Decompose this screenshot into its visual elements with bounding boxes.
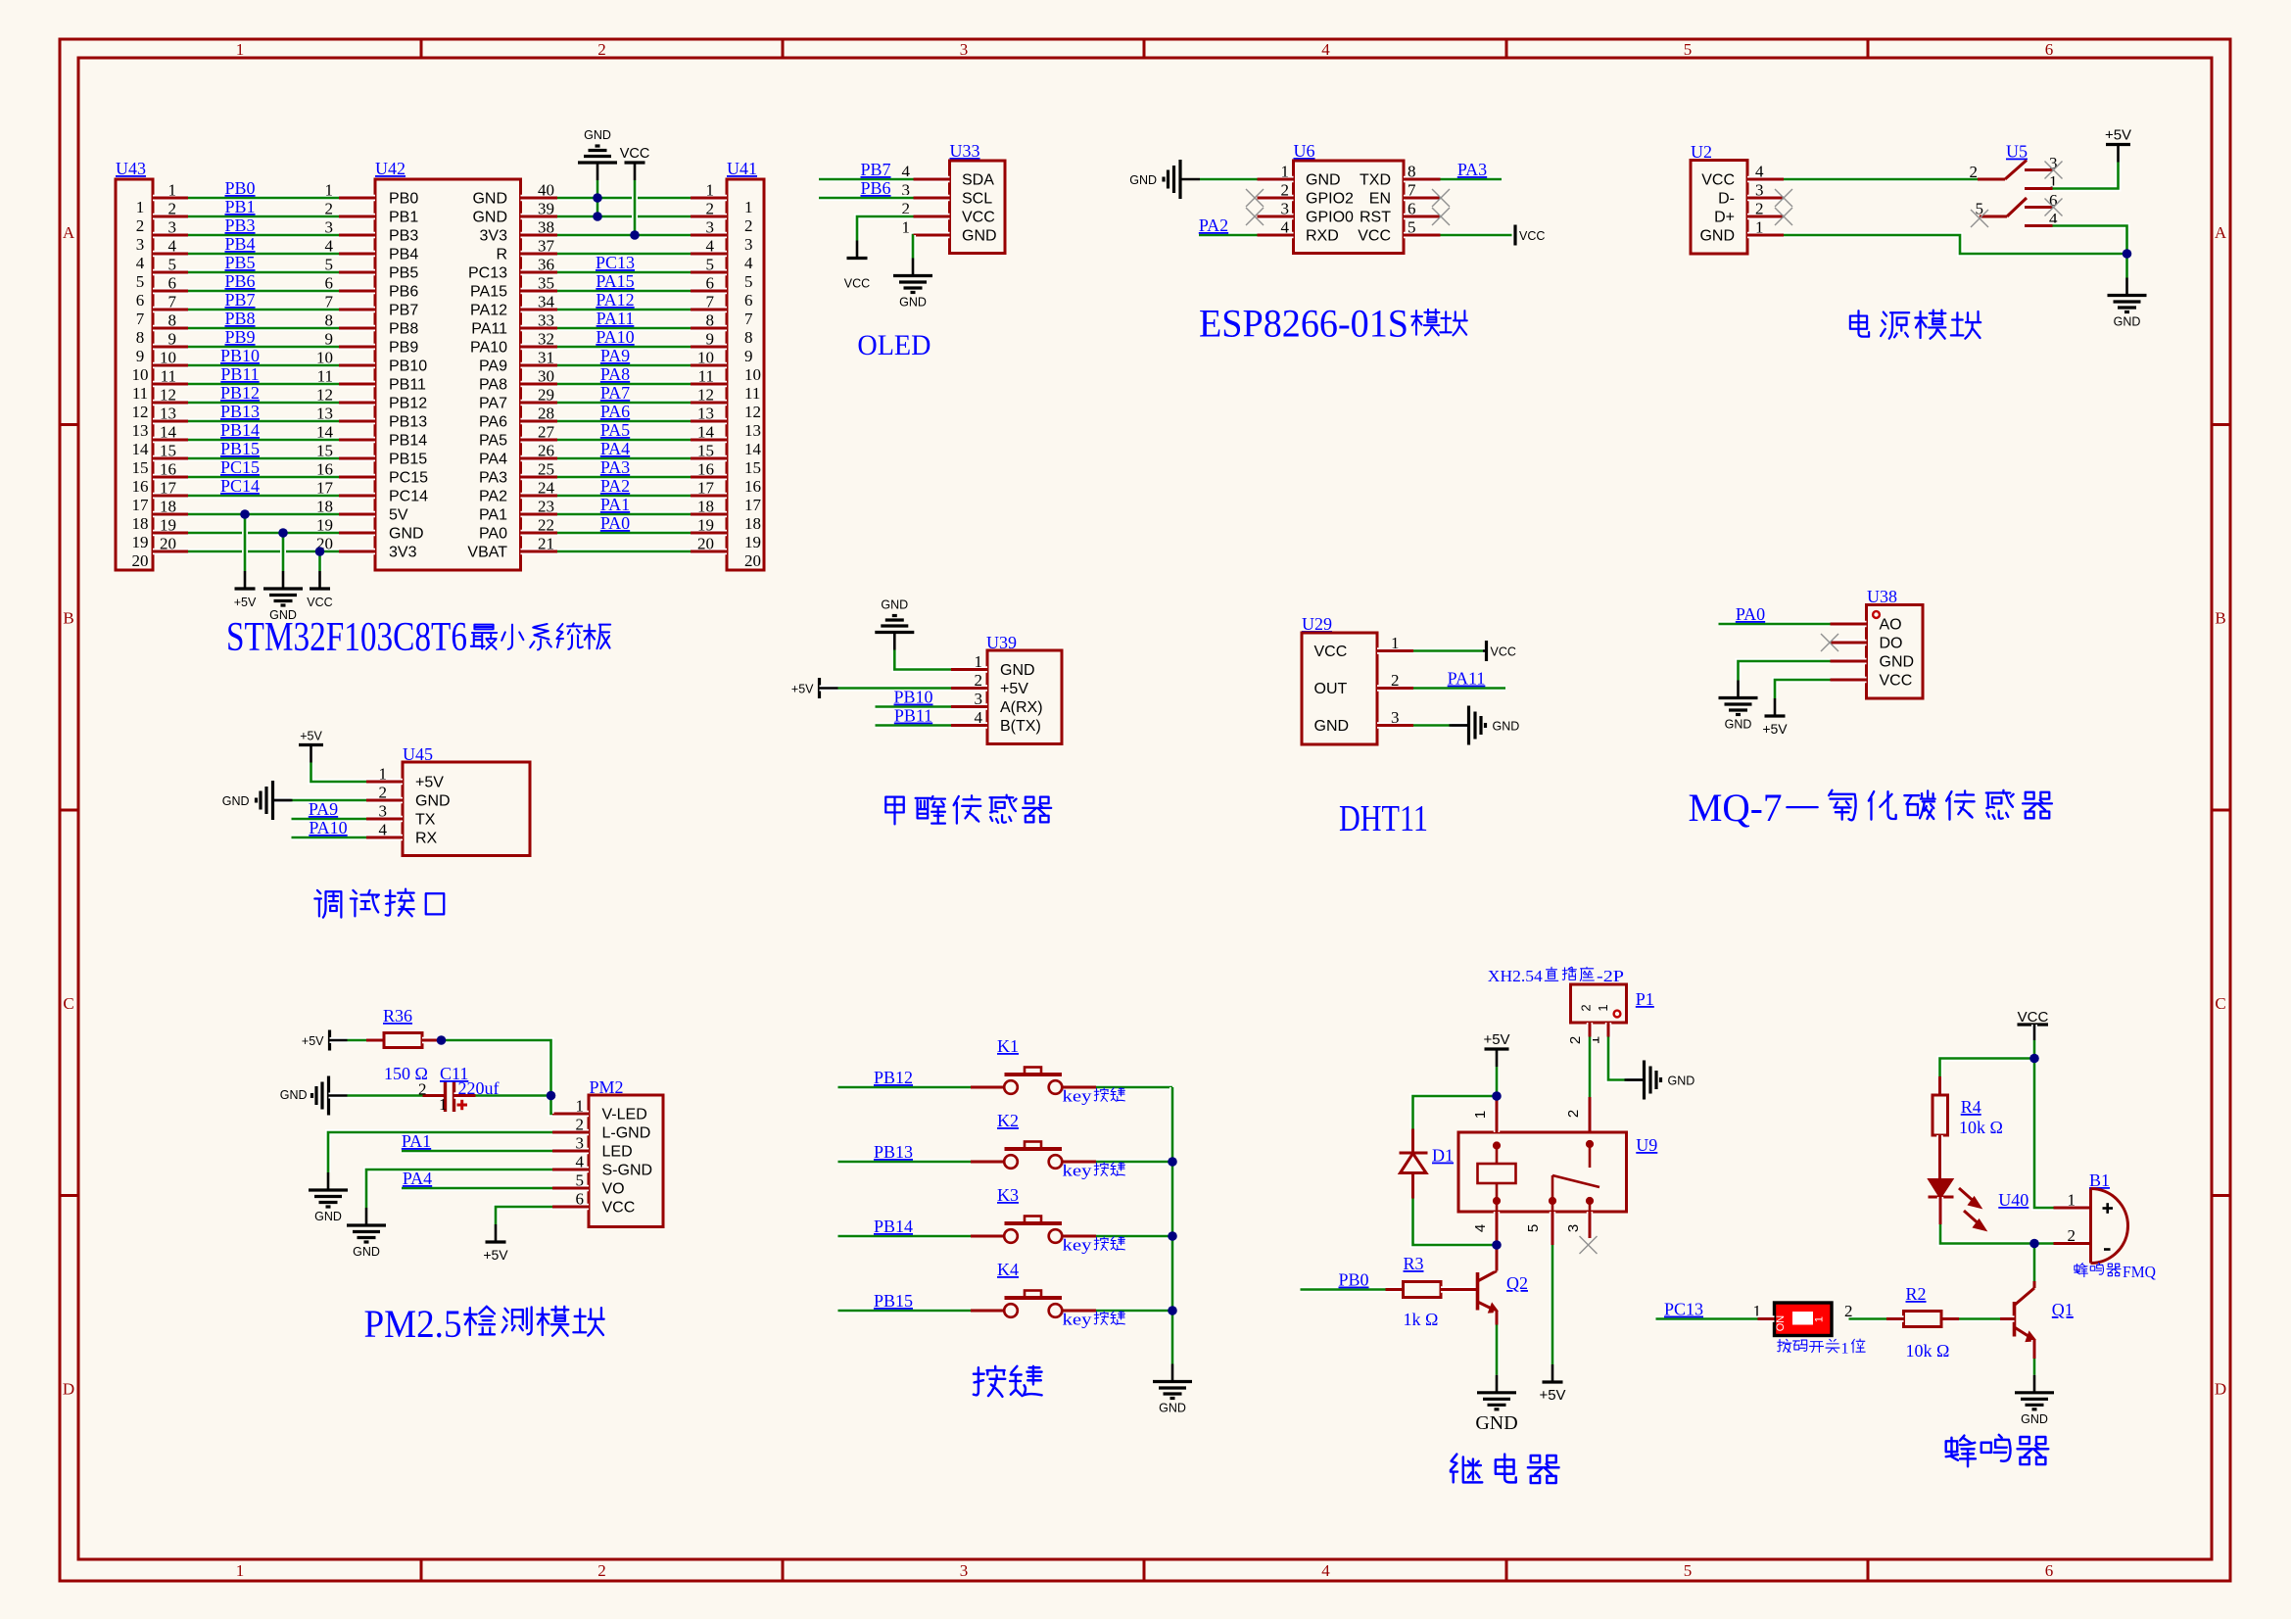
relay U9 body bbox=[1458, 1132, 1627, 1212]
U42 right pin 24 stub bbox=[521, 493, 558, 499]
svg-text:R36: R36 bbox=[383, 1006, 412, 1026]
no-connect X U6 pin3 bbox=[1246, 208, 1264, 225]
B1 label cjk feng-ming-qi bbox=[2075, 1263, 2121, 1276]
svg-text:PA4: PA4 bbox=[479, 452, 507, 468]
wire PM2 VCC bbox=[496, 1207, 552, 1224]
svg-text:U43: U43 bbox=[116, 159, 146, 178]
wire U2 VCC to switch U5 bbox=[1784, 176, 1978, 182]
svg-text:VCC: VCC bbox=[962, 210, 995, 226]
svg-text:6: 6 bbox=[136, 291, 145, 310]
wire U42-30 to U41-11 bbox=[557, 381, 691, 387]
wire U43-11 to U42-11 bbox=[188, 381, 339, 387]
svg-text:3: 3 bbox=[1755, 181, 1764, 200]
wire PB7 to U33 SDA bbox=[819, 176, 914, 182]
svg-text:2: 2 bbox=[1755, 200, 1764, 218]
svg-text:PC13: PC13 bbox=[596, 253, 635, 272]
wire U39 +5V bbox=[838, 686, 952, 692]
svg-text:+5V: +5V bbox=[234, 596, 257, 609]
svg-text:14: 14 bbox=[744, 440, 762, 458]
svg-text:RX: RX bbox=[415, 831, 438, 847]
connector U41 body bbox=[727, 179, 764, 570]
svg-text:5: 5 bbox=[744, 272, 753, 291]
wire node to B1 pin1 bbox=[2034, 1059, 2054, 1209]
svg-text:1: 1 bbox=[706, 181, 715, 200]
ground symbol above U39 bbox=[875, 616, 914, 650]
svg-text:4: 4 bbox=[136, 254, 145, 272]
wire PA10 to U45 RX bbox=[292, 835, 367, 840]
U42 right pin 35 stub bbox=[521, 288, 558, 294]
svg-text:D: D bbox=[63, 1380, 74, 1399]
svg-text:PB11: PB11 bbox=[220, 364, 259, 384]
U41 pin 8 stub bbox=[691, 325, 727, 331]
U41 pin 18 stub bbox=[691, 511, 727, 517]
C11 left lead bbox=[423, 1092, 445, 1098]
ground symbol left of U6 bbox=[1164, 160, 1200, 199]
svg-text:2: 2 bbox=[1970, 163, 1979, 181]
U39 pin 3 stub bbox=[951, 703, 987, 709]
svg-text:7: 7 bbox=[744, 310, 753, 328]
svg-text:PB7: PB7 bbox=[389, 303, 418, 319]
svg-text:3: 3 bbox=[168, 218, 177, 237]
svg-text:11: 11 bbox=[161, 367, 176, 386]
svg-text:GPIO0: GPIO0 bbox=[1306, 210, 1354, 226]
U42 left pin 20 stub bbox=[339, 549, 375, 554]
U41 pin 10 stub bbox=[691, 362, 727, 368]
wire U42-37 to U41-4 bbox=[557, 251, 691, 257]
svg-text:1: 1 bbox=[1472, 1111, 1489, 1119]
transistor Q2 bbox=[1478, 1271, 1498, 1313]
title cjk tiao-shi-jie-kou bbox=[314, 889, 444, 918]
svg-text:4: 4 bbox=[744, 254, 753, 272]
U42 right pin 40 stub bbox=[521, 195, 558, 201]
svg-text:2: 2 bbox=[1579, 1004, 1594, 1011]
svg-text:8: 8 bbox=[744, 328, 753, 347]
U33 pin 4 stub bbox=[914, 176, 950, 182]
svg-text:6: 6 bbox=[168, 274, 177, 293]
svg-text:1: 1 bbox=[236, 1561, 245, 1580]
no-connect X U5 pin5 bbox=[1971, 210, 1988, 227]
svg-text:ESP8266-01S: ESP8266-01S bbox=[1199, 302, 1408, 346]
wire PB14 to K3 bbox=[838, 1233, 972, 1239]
svg-text:GND: GND bbox=[1475, 1412, 1517, 1434]
svg-text:3: 3 bbox=[706, 218, 715, 237]
power symbol GND above U42 bbox=[578, 146, 617, 180]
wire U42-40 to U41-1 bbox=[557, 195, 691, 201]
svg-text:PA8: PA8 bbox=[479, 377, 507, 394]
wire node2 to B1 pin2 bbox=[2034, 1241, 2054, 1247]
U2 pin 2 stub bbox=[1747, 214, 1784, 219]
wire PB15 to K4 bbox=[838, 1308, 972, 1314]
svg-text:VCC: VCC bbox=[1519, 229, 1545, 243]
wire GND tap bottom bbox=[280, 533, 286, 571]
svg-text:SDA: SDA bbox=[962, 172, 994, 189]
U42 left pin 7 stub bbox=[339, 307, 375, 312]
svg-text:STM32F103C8T6: STM32F103C8T6 bbox=[226, 615, 467, 660]
U45 pin 4 stub bbox=[366, 835, 403, 840]
svg-text:PB3: PB3 bbox=[389, 228, 418, 245]
svg-text:2: 2 bbox=[597, 1561, 606, 1580]
U42 right pin 38 stub bbox=[521, 232, 558, 238]
svg-text:PB9: PB9 bbox=[389, 340, 418, 357]
U42 left pin 18 stub bbox=[339, 511, 375, 517]
svg-text:GND: GND bbox=[881, 598, 908, 612]
svg-text:PB15: PB15 bbox=[389, 452, 427, 468]
svg-text:VCC: VCC bbox=[1880, 673, 1913, 690]
svg-text:L-GND: L-GND bbox=[602, 1125, 651, 1142]
junction C11 node bbox=[547, 1091, 556, 1101]
U42 left pin 10 stub bbox=[339, 362, 375, 368]
svg-text:GND: GND bbox=[1129, 173, 1157, 187]
wire +5V to relay bbox=[1494, 1067, 1500, 1096]
U43 pin 15 stub bbox=[153, 455, 188, 461]
svg-text:+5V: +5V bbox=[302, 1034, 324, 1048]
wire U43-5 to U42-5 bbox=[188, 269, 339, 275]
U41 pin 7 stub bbox=[691, 307, 727, 312]
B1 pin 1 stub bbox=[2054, 1205, 2091, 1211]
svg-text:5: 5 bbox=[576, 1171, 585, 1190]
svg-text:15: 15 bbox=[160, 442, 176, 460]
U33 pin 2 stub bbox=[914, 214, 950, 219]
U41 pin 5 stub bbox=[691, 269, 727, 275]
wire VCC tap vertical bbox=[632, 180, 638, 235]
svg-text:PB12: PB12 bbox=[389, 396, 427, 412]
svg-text:13: 13 bbox=[316, 405, 333, 423]
svg-text:PB13: PB13 bbox=[220, 402, 260, 421]
svg-text:22: 22 bbox=[538, 516, 554, 535]
svg-text:key: key bbox=[1063, 1236, 1093, 1255]
svg-text:2: 2 bbox=[325, 200, 334, 218]
U41 pin 11 stub bbox=[691, 381, 727, 387]
svg-text:XH2.54: XH2.54 bbox=[1488, 967, 1544, 985]
power symbol +5V above U45 bbox=[299, 745, 323, 763]
svg-text:PB7: PB7 bbox=[860, 160, 890, 179]
svg-text:20: 20 bbox=[132, 551, 149, 570]
wire U43-19 to U42-19 bbox=[188, 530, 339, 536]
U33 pin 1 stub bbox=[914, 232, 950, 238]
svg-text:PB10: PB10 bbox=[389, 358, 427, 375]
U38 pin DO stub bbox=[1831, 640, 1867, 645]
svg-text:U40: U40 bbox=[1998, 1190, 2028, 1210]
svg-text:19: 19 bbox=[697, 516, 714, 535]
svg-text:VCC: VCC bbox=[1491, 645, 1516, 659]
svg-text:+5V: +5V bbox=[1762, 721, 1788, 737]
svg-text:GND: GND bbox=[584, 128, 611, 142]
wire U43-8 to U42-8 bbox=[188, 325, 339, 331]
wire K3 to bus bbox=[1096, 1233, 1172, 1239]
svg-text:B1: B1 bbox=[2089, 1170, 2110, 1190]
svg-text:PA11: PA11 bbox=[471, 321, 507, 338]
U6 pin 7 stub bbox=[1404, 195, 1441, 201]
U43 pin 18 stub bbox=[153, 511, 188, 517]
U42 right pin 33 stub bbox=[521, 325, 558, 331]
power symbol +5V top right bbox=[2106, 145, 2130, 163]
no-connect X U5 pin6 bbox=[2045, 199, 2063, 216]
svg-text:13: 13 bbox=[132, 421, 149, 440]
power symbol +5V above relay bbox=[1485, 1049, 1509, 1067]
svg-text:PM2.5: PM2.5 bbox=[364, 1302, 462, 1346]
svg-text:P1: P1 bbox=[1636, 989, 1654, 1009]
no-connect X relay pin3 bbox=[1580, 1236, 1598, 1254]
wire relay pin5 to +5V bbox=[1550, 1245, 1555, 1364]
svg-text:R4: R4 bbox=[1961, 1097, 1981, 1117]
svg-text:GND: GND bbox=[472, 210, 507, 226]
svg-text:4: 4 bbox=[576, 1153, 585, 1171]
wire DIP to R2 bbox=[1849, 1316, 1887, 1322]
U42 left pin 4 stub bbox=[339, 251, 375, 257]
svg-text:A: A bbox=[2215, 223, 2227, 242]
svg-text:GND: GND bbox=[1000, 662, 1035, 679]
wire GND glue black P1 bbox=[1627, 1077, 1645, 1083]
sensor U29 body bbox=[1302, 633, 1377, 744]
svg-text:7: 7 bbox=[706, 293, 715, 311]
wire PB11 to U39 bbox=[876, 723, 952, 729]
U42 right pin 28 stub bbox=[521, 418, 558, 424]
svg-text:PB6: PB6 bbox=[224, 271, 255, 291]
U39 pin 4 stub bbox=[951, 722, 987, 728]
wire U43-14 to U42-14 bbox=[188, 437, 339, 443]
svg-text:9: 9 bbox=[325, 330, 334, 349]
wire U43-18 to U42-18 bbox=[188, 511, 339, 517]
svg-text:2: 2 bbox=[706, 200, 715, 218]
Q1 emitter lead bbox=[2031, 1340, 2037, 1359]
B1 pin 2 stub bbox=[2054, 1240, 2091, 1246]
U38 pin GND stub bbox=[1831, 658, 1867, 664]
svg-text:1: 1 bbox=[439, 1095, 448, 1114]
R36 right lead bbox=[422, 1037, 440, 1043]
ground symbol below U38 bbox=[1719, 681, 1758, 715]
U43 pin 20 stub bbox=[153, 549, 188, 554]
wire U42-34 to U41-7 bbox=[557, 307, 691, 312]
svg-text:1: 1 bbox=[1596, 1004, 1610, 1011]
wire PA2 to U6 RXD bbox=[1199, 232, 1258, 238]
wire U45 +5V bbox=[311, 763, 367, 783]
svg-text:PA7: PA7 bbox=[600, 383, 630, 403]
P1 pin 1 stub bbox=[1605, 1023, 1611, 1037]
U6 pin 6 stub bbox=[1404, 214, 1441, 219]
LED cathode lead bbox=[1937, 1197, 1943, 1224]
svg-text:PA3: PA3 bbox=[479, 470, 507, 487]
wire U42-23 to U41-18 bbox=[557, 511, 691, 517]
wire GND glue black bbox=[1452, 723, 1469, 729]
svg-text:3: 3 bbox=[960, 40, 969, 59]
svg-text:PA10: PA10 bbox=[596, 327, 634, 347]
wire U42-21 to U41-20 bbox=[557, 549, 691, 554]
sensor U38 body bbox=[1867, 605, 1924, 699]
resistor R36 bbox=[384, 1033, 422, 1048]
svg-text:GND: GND bbox=[2114, 315, 2141, 329]
U29 pin 2 stub bbox=[1377, 685, 1413, 691]
svg-text:TXD: TXD bbox=[1360, 172, 1391, 189]
U42 right pin 36 stub bbox=[521, 269, 558, 275]
svg-text:19: 19 bbox=[160, 516, 176, 535]
U42 right pin 37 stub bbox=[521, 251, 558, 257]
svg-text:A(RX): A(RX) bbox=[1000, 699, 1043, 716]
svg-text:VO: VO bbox=[602, 1181, 625, 1198]
U6 pin 1 stub bbox=[1258, 176, 1294, 182]
sensor U39 body bbox=[987, 650, 1062, 744]
svg-text:GND: GND bbox=[899, 296, 927, 310]
wire +5V bar stem glue bbox=[820, 686, 838, 692]
svg-text:MQ-7: MQ-7 bbox=[1689, 786, 1783, 830]
svg-text:3V3: 3V3 bbox=[480, 228, 508, 245]
svg-text:1: 1 bbox=[1814, 1316, 1826, 1322]
U42 right pin 25 stub bbox=[521, 474, 558, 480]
U45 pin 3 stub bbox=[366, 816, 403, 822]
svg-text:PB14: PB14 bbox=[220, 420, 260, 440]
connector U43 body bbox=[116, 179, 153, 570]
svg-text:+5V: +5V bbox=[1483, 1031, 1509, 1048]
svg-text:PA4: PA4 bbox=[403, 1169, 432, 1188]
junction row1 GND bbox=[593, 193, 602, 203]
svg-text:25: 25 bbox=[538, 460, 554, 479]
U43 pin 7 stub bbox=[153, 307, 188, 312]
key label cjk an-jian K4 bbox=[1094, 1312, 1124, 1325]
U41 pin 1 stub bbox=[691, 195, 727, 201]
svg-text:7: 7 bbox=[1408, 181, 1416, 200]
svg-text:PB11: PB11 bbox=[894, 706, 932, 726]
U6 pin 2 stub bbox=[1258, 195, 1294, 201]
power symbol +5V below U43 bbox=[235, 571, 256, 589]
U42 left pin 17 stub bbox=[339, 493, 375, 499]
svg-text:17: 17 bbox=[132, 496, 150, 514]
U43 pin 2 stub bbox=[153, 214, 188, 219]
svg-text:12: 12 bbox=[316, 386, 333, 405]
U42 right pin 34 stub bbox=[521, 307, 558, 312]
svg-text:8: 8 bbox=[168, 311, 177, 330]
wire U38 VCC bbox=[1775, 680, 1831, 698]
junction row19 GND bbox=[278, 528, 288, 538]
svg-text:2: 2 bbox=[975, 671, 983, 690]
wire D1 to +5V node bbox=[1413, 1096, 1498, 1129]
svg-text:R2: R2 bbox=[1906, 1284, 1927, 1304]
svg-text:5: 5 bbox=[1408, 218, 1416, 237]
svg-text:PB4: PB4 bbox=[224, 234, 255, 254]
svg-text:3: 3 bbox=[744, 235, 753, 254]
svg-text:11: 11 bbox=[132, 384, 148, 403]
U6 pin 3 stub bbox=[1258, 214, 1294, 219]
svg-text:12: 12 bbox=[160, 386, 176, 405]
svg-text:40: 40 bbox=[538, 181, 554, 200]
svg-text:PA11: PA11 bbox=[1448, 669, 1486, 689]
svg-text:+5V: +5V bbox=[1539, 1387, 1565, 1404]
relay pin 5 stub bbox=[1550, 1212, 1555, 1245]
svg-text:17: 17 bbox=[316, 479, 334, 498]
wire U42-35 to U41-6 bbox=[557, 288, 691, 294]
svg-text:7: 7 bbox=[168, 293, 177, 311]
U41 pin 4 stub bbox=[691, 251, 727, 257]
U5 pin 6 stub bbox=[2025, 204, 2053, 210]
U42 left pin 11 stub bbox=[339, 381, 375, 387]
wire U42-36 to U41-5 bbox=[557, 269, 691, 275]
svg-text:PB5: PB5 bbox=[389, 265, 418, 282]
svg-text:B(TX): B(TX) bbox=[1000, 718, 1041, 735]
svg-text:U33: U33 bbox=[950, 141, 980, 161]
U29 pin 3 stub bbox=[1377, 722, 1413, 728]
svg-text:36: 36 bbox=[538, 256, 554, 274]
svg-text:5V: 5V bbox=[389, 507, 408, 524]
svg-text:key: key bbox=[1063, 1087, 1093, 1106]
svg-text:3: 3 bbox=[1281, 200, 1290, 218]
svg-text:+5V: +5V bbox=[300, 730, 322, 743]
P1 title cjk zhi-cha-zuo bbox=[1545, 967, 1594, 980]
U41 pin 2 stub bbox=[691, 214, 727, 219]
svg-text:PB11: PB11 bbox=[389, 377, 426, 394]
connector P1 body bbox=[1571, 984, 1627, 1023]
junction row2 GND bbox=[593, 212, 602, 221]
U42 right pin 30 stub bbox=[521, 381, 558, 387]
svg-text:7: 7 bbox=[325, 293, 334, 311]
U2 pin 4 stub bbox=[1747, 176, 1784, 182]
no-connect X U2 D- bbox=[1775, 189, 1792, 207]
svg-text:9: 9 bbox=[136, 347, 145, 365]
svg-text:10: 10 bbox=[697, 349, 714, 367]
svg-text:DO: DO bbox=[1880, 636, 1903, 652]
wire PA0 to U38 AO bbox=[1719, 621, 1831, 627]
svg-text:PA12: PA12 bbox=[596, 290, 634, 310]
svg-text:3: 3 bbox=[975, 690, 983, 708]
wire U42-38 to U41-3 bbox=[557, 232, 691, 238]
ground symbol below Q2 bbox=[1477, 1375, 1516, 1409]
LED U40 bbox=[1929, 1180, 1985, 1230]
svg-text:2: 2 bbox=[418, 1080, 427, 1099]
PM2 pin 3 stub bbox=[552, 1148, 589, 1154]
svg-text:2: 2 bbox=[576, 1116, 585, 1134]
relay switch contacts bbox=[1550, 1141, 1599, 1212]
ground symbol below key bus bbox=[1153, 1364, 1192, 1399]
svg-text:1: 1 bbox=[576, 1097, 585, 1116]
title cjk ji-dian-qi bbox=[1451, 1455, 1559, 1484]
svg-text:3: 3 bbox=[960, 1561, 969, 1580]
svg-text:3: 3 bbox=[379, 802, 388, 821]
svg-text:5: 5 bbox=[706, 256, 715, 274]
Q2 collector lead bbox=[1494, 1245, 1500, 1271]
junction GND node power module bbox=[2123, 249, 2132, 259]
header U42 body bbox=[375, 179, 521, 570]
svg-text:8: 8 bbox=[1408, 163, 1416, 181]
svg-text:PB14: PB14 bbox=[874, 1217, 913, 1236]
wire +5V to R36 bbox=[348, 1037, 367, 1043]
svg-text:PC13: PC13 bbox=[468, 265, 507, 282]
svg-text:K1: K1 bbox=[997, 1036, 1019, 1056]
wire GND glue black U45 bbox=[273, 797, 292, 803]
wire U5 pin1 to +5V bbox=[2053, 163, 2119, 189]
svg-text:GND: GND bbox=[1880, 654, 1915, 671]
ground symbol left of C11 bbox=[312, 1076, 349, 1116]
U43 pin 11 stub bbox=[153, 381, 188, 387]
svg-text:16: 16 bbox=[160, 460, 176, 479]
svg-text:GND: GND bbox=[389, 526, 424, 543]
svg-text:PA1: PA1 bbox=[402, 1131, 431, 1151]
svg-text:2: 2 bbox=[1844, 1302, 1853, 1320]
ground symbol left of U45 bbox=[257, 781, 293, 820]
svg-text:1: 1 bbox=[1755, 218, 1764, 237]
svg-text:6: 6 bbox=[1408, 200, 1416, 218]
svg-text:2: 2 bbox=[379, 784, 388, 802]
svg-text:PA2: PA2 bbox=[479, 489, 507, 505]
U41 pin 16 stub bbox=[691, 474, 727, 480]
svg-text:8: 8 bbox=[706, 311, 715, 330]
svg-text:PB1: PB1 bbox=[389, 210, 418, 226]
svg-text:4: 4 bbox=[168, 237, 177, 256]
U42 left pin 12 stub bbox=[339, 400, 375, 406]
wire U2 GND route bbox=[1784, 235, 2127, 254]
U42 left pin 6 stub bbox=[339, 288, 375, 294]
svg-text:PA0: PA0 bbox=[600, 513, 630, 533]
DIP label cjk bo-ma-kai-guan bbox=[1778, 1339, 1839, 1352]
svg-text:+5V: +5V bbox=[415, 775, 444, 791]
svg-text:5: 5 bbox=[1525, 1224, 1542, 1232]
svg-text:K4: K4 bbox=[997, 1260, 1019, 1279]
